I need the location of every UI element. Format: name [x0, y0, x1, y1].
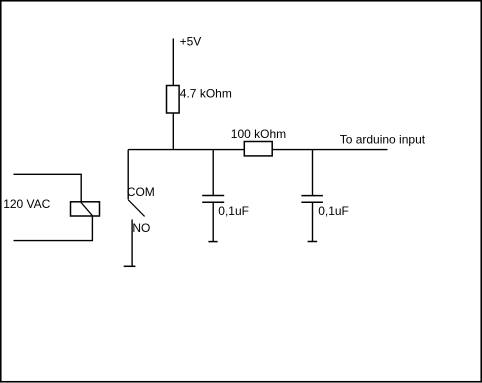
- svg-text:To arduino input: To arduino input: [340, 133, 426, 147]
- capacitor C1 0,1uF: [202, 194, 224, 196]
- wire 120VAC top: [13, 174, 81, 202]
- wire C2 bottom lead: [311, 202, 313, 241]
- wire C1 bottom lead: [212, 202, 214, 241]
- wire C2 top lead: [312, 150, 314, 196]
- wire +5V lead to R1: [172, 38, 174, 86]
- svg-text:COM: COM: [127, 185, 155, 199]
- svg-text:100 kOhm: 100 kOhm: [231, 127, 286, 141]
- svg-text:120 VAC: 120 VAC: [3, 197, 50, 211]
- ground switch: [124, 265, 136, 267]
- wire R1 bottom lead: [172, 113, 174, 150]
- wire switch COM drop: [127, 150, 129, 200]
- relay coil K1: [70, 202, 99, 216]
- ground C2: [308, 241, 318, 243]
- resistor R2 100 kOhm: [244, 142, 272, 156]
- ground C1: [208, 241, 217, 243]
- svg-text:4.7 kOhm: 4.7 kOhm: [180, 87, 232, 101]
- wire main horizontal node: [128, 149, 387, 151]
- svg-text:+5V: +5V: [180, 35, 202, 49]
- wire C1 top lead: [212, 150, 214, 196]
- svg-text:0,1uF: 0,1uF: [218, 204, 249, 218]
- capacitor C2 0,1uF: [301, 195, 323, 197]
- relay coil diagonal: [81, 202, 93, 216]
- svg-text:NO: NO: [132, 221, 150, 235]
- resistor R1 4.7 kOhm: [167, 85, 180, 113]
- wire 120VAC bottom: [13, 216, 92, 241]
- switch blade SW1: [128, 200, 144, 217]
- svg-text:0,1uF: 0,1uF: [318, 204, 349, 218]
- wire NO contact lead: [131, 219, 133, 266]
